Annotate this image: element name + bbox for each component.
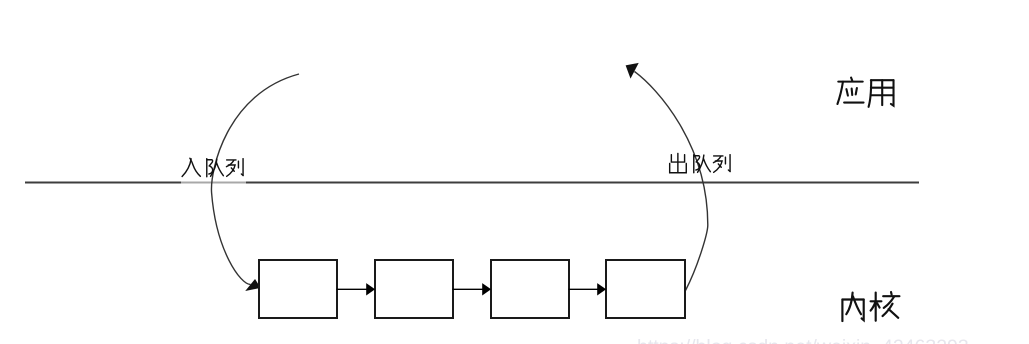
separator line between user space and kernel space bbox=[25, 182, 919, 184]
enqueue arc (curved arrow from application down into first queue node) bbox=[211, 74, 299, 285]
watermark bbox=[637, 336, 969, 344]
lightened line segment under 入队列 label bbox=[181, 182, 246, 184]
label 内核 (kernel) bbox=[842, 292, 899, 321]
queue node box 2 bbox=[375, 260, 453, 318]
label 入队列 (enqueue) bbox=[182, 158, 243, 176]
label 出队列 (dequeue) bbox=[670, 153, 730, 172]
link arrow box2->box3 bbox=[453, 283, 492, 295]
dequeue arc (curved arrow from last queue node up to application) bbox=[635, 72, 708, 291]
link arrow box1->box2 bbox=[337, 283, 376, 295]
label 应用 (application) bbox=[837, 78, 893, 107]
link arrow box3->box4 bbox=[569, 283, 607, 295]
dequeue arrowhead bbox=[626, 64, 638, 78]
queue node box 4 bbox=[606, 260, 685, 318]
queue node box 1 bbox=[259, 260, 337, 318]
enqueue arrowhead bbox=[247, 280, 260, 290]
queue node box 3 bbox=[491, 260, 569, 318]
